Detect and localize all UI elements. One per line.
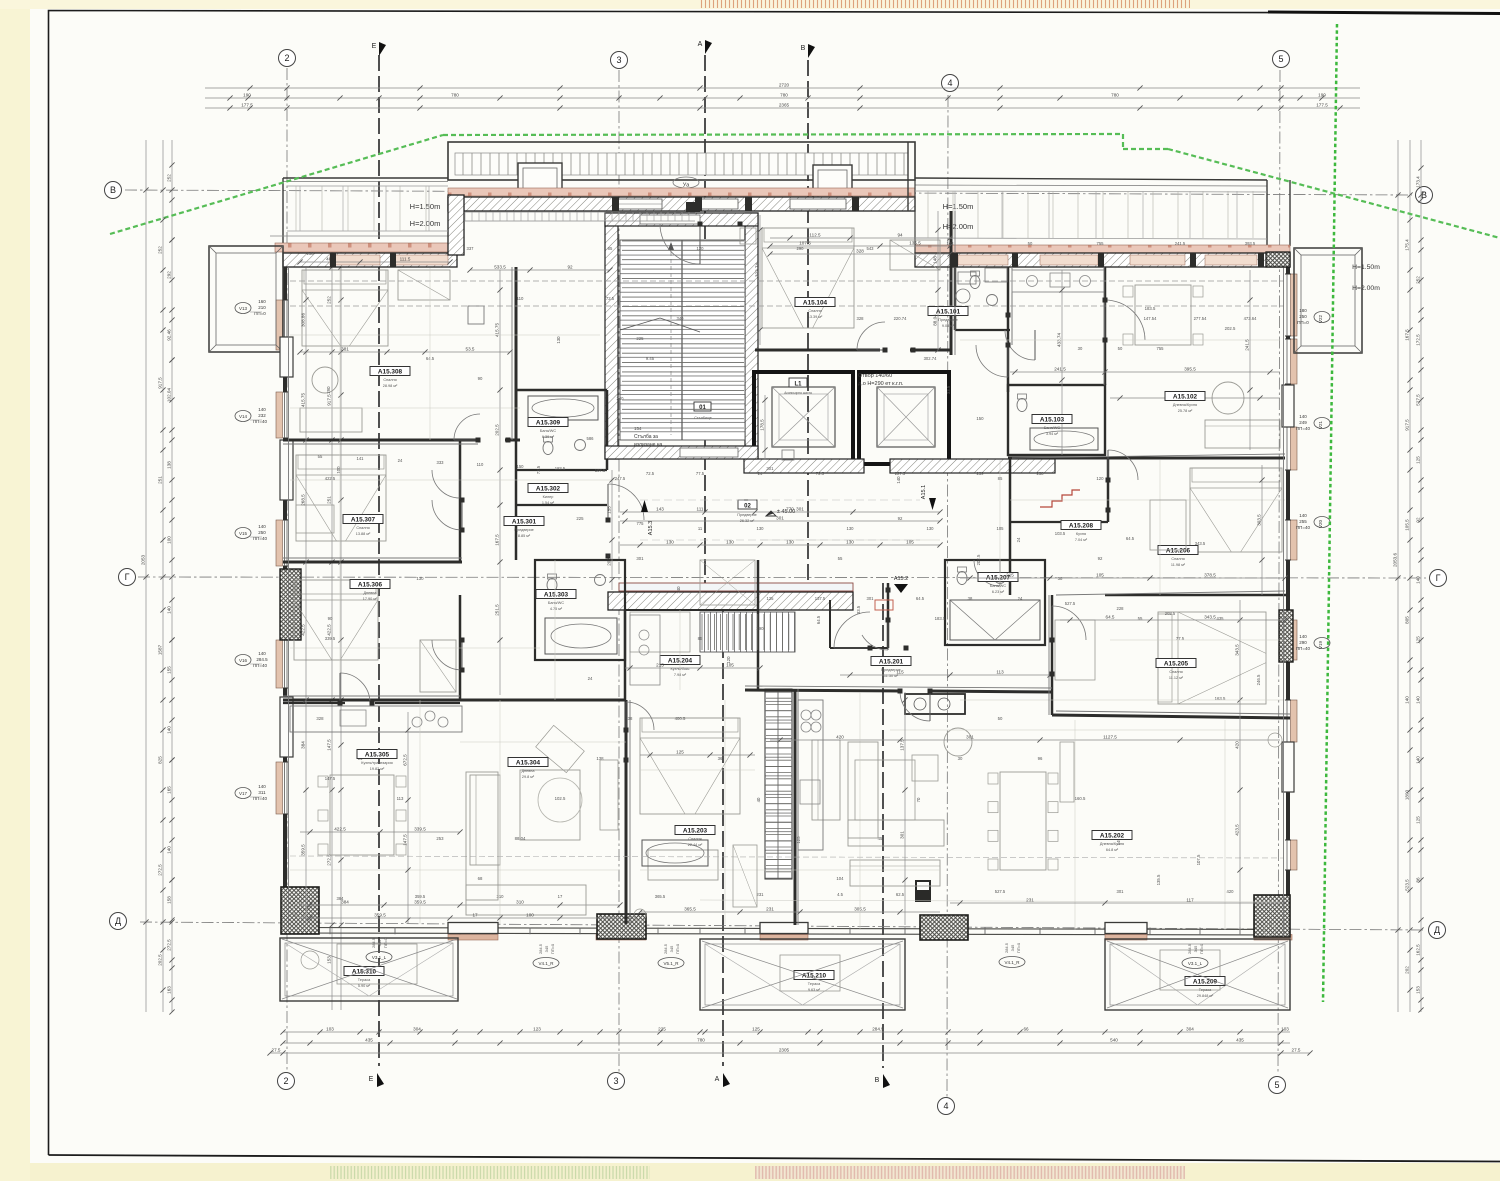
svg-text:241.5: 241.5 — [1244, 339, 1249, 351]
svg-text:H=2.00m: H=2.00m — [410, 219, 441, 228]
svg-text:68: 68 — [478, 876, 483, 881]
kitchen counter A15.102 — [1011, 267, 1013, 345]
svg-text:150: 150 — [976, 416, 984, 421]
svg-text:125: 125 — [1415, 816, 1420, 824]
svg-text:130: 130 — [847, 526, 855, 531]
wardrobe A15.308 — [398, 270, 450, 300]
svg-text:130: 130 — [556, 336, 561, 344]
svg-text:2053: 2053 — [140, 554, 145, 565]
svg-text:780: 780 — [697, 1037, 705, 1042]
room label A15.205 — [1156, 659, 1196, 668]
green boundary step — [1122, 134, 1124, 149]
svg-text:88.04: 88.04 — [932, 314, 937, 326]
level dashes corridor — [640, 499, 920, 501]
svg-text:227.5: 227.5 — [895, 471, 906, 476]
axis bubble G left — [119, 569, 136, 586]
right section band windows — [958, 255, 1008, 265]
tub A15.309 — [528, 396, 598, 420]
svg-text:165: 165 — [166, 786, 171, 794]
svg-text:190: 190 — [243, 92, 251, 97]
hatched wall band right section — [915, 253, 1290, 267]
svg-text:225: 225 — [576, 516, 584, 521]
svg-text:232: 232 — [258, 413, 266, 418]
svg-text:420: 420 — [836, 734, 844, 739]
svg-text:A15.201: A15.201 — [879, 659, 904, 666]
left roof terrace edge lines — [283, 177, 448, 179]
hatched wall band below top block — [448, 197, 915, 211]
wall A15.202 north — [745, 690, 900, 691]
svg-text:A15.2: A15.2 — [894, 576, 908, 582]
left yellow margin strip — [0, 0, 30, 1181]
additional door arcs — [976, 345, 1008, 377]
svg-text:125: 125 — [1415, 636, 1420, 644]
svg-text:B: B — [801, 45, 806, 52]
svg-text:4: 4 — [943, 1101, 948, 1111]
window label V3.1L — [366, 952, 392, 963]
svg-text:284.5: 284.5 — [1187, 943, 1192, 954]
svg-text:V15: V15 — [239, 531, 248, 536]
axis bubble 4 bottom — [938, 1098, 955, 1115]
svg-text:252: 252 — [326, 296, 331, 304]
svg-text:A15.1: A15.1 — [921, 485, 927, 499]
svg-text:7.04 м²: 7.04 м² — [1075, 538, 1088, 542]
down stair long flight — [765, 689, 792, 879]
svg-text:284.5: 284.5 — [371, 937, 376, 948]
svg-text:384: 384 — [300, 741, 305, 749]
room label A15.208 — [1061, 521, 1101, 530]
svg-text:2365: 2365 — [779, 102, 790, 107]
svg-text:147.5: 147.5 — [325, 776, 336, 781]
posts in left hatch band — [330, 253, 336, 267]
svg-text:175.4: 175.4 — [1404, 239, 1409, 251]
svg-text:17: 17 — [472, 912, 478, 917]
svg-text:141: 141 — [357, 456, 365, 461]
svg-text:167.5: 167.5 — [494, 534, 499, 546]
wc sink A15.309 — [543, 442, 553, 455]
svg-text:28.98 м²: 28.98 м² — [383, 384, 398, 388]
svg-text:26.32 м²: 26.32 м² — [740, 519, 755, 523]
svg-text:140: 140 — [258, 651, 266, 656]
svg-text:A15.305: A15.305 — [365, 752, 390, 759]
svg-text:105: 105 — [906, 539, 914, 544]
svg-text:308.86: 308.86 — [300, 313, 305, 327]
svg-text:3: 3 — [616, 55, 621, 65]
dim chain top rooms — [770, 237, 950, 239]
room label A15.206 — [1158, 546, 1198, 555]
room label A15.102 — [1165, 392, 1205, 401]
svg-text:92: 92 — [1098, 556, 1103, 561]
room label A15.309 — [528, 418, 568, 427]
dark posts in top hatch band — [612, 197, 619, 211]
corridor secondary dim chain — [620, 544, 940, 546]
room label A15.305 — [357, 750, 397, 759]
level mark +45.00 — [766, 511, 776, 516]
stair label 01 — [694, 402, 711, 411]
dim chain corridor horizontal — [620, 511, 940, 513]
wall A15.205 south — [1052, 715, 1290, 718]
svg-text:Баня/WC: Баня/WC — [1044, 426, 1060, 430]
svg-text:422.5: 422.5 — [326, 624, 331, 636]
window label V4.1R — [533, 958, 559, 969]
svg-text:Дневна: Дневна — [363, 591, 377, 595]
axis bubble 3 bottom — [608, 1073, 625, 1090]
svg-text:339.5: 339.5 — [325, 636, 336, 641]
svg-text:Дневна: Дневна — [521, 769, 535, 773]
svg-text:9.45: 9.45 — [646, 356, 655, 361]
axis bubble 4 top — [942, 75, 959, 92]
corridor south hatched wall — [608, 592, 853, 610]
svg-text:Отвор 140/60: Отвор 140/60 — [858, 373, 892, 379]
svg-text:Стълба за: Стълба за — [634, 434, 658, 440]
axis flag E top — [379, 42, 386, 56]
tv A15.202 — [1060, 742, 1074, 802]
door jamb stubs — [476, 438, 481, 443]
svg-text:11.30 м²: 11.30 м² — [884, 674, 899, 678]
svg-text:A15.103: A15.103 — [1040, 417, 1065, 424]
sofa L A15.202 — [848, 742, 878, 838]
svg-text:423.5: 423.5 — [1234, 824, 1239, 836]
svg-text:805: 805 — [1404, 616, 1409, 624]
tv cabinet A15.304 — [600, 760, 618, 830]
sofa A15.102 — [1205, 420, 1280, 448]
wall A15.204 east — [757, 560, 760, 690]
svg-text:272.5: 272.5 — [326, 854, 331, 866]
axis B section line upper — [807, 60, 809, 583]
svg-text:Баня/WC: Баня/WC — [990, 584, 1006, 588]
bed A15.206 — [1190, 468, 1282, 552]
svg-text:277.54: 277.54 — [1194, 316, 1207, 321]
svg-text:Баня/WC: Баня/WC — [548, 601, 564, 605]
top roof block outline — [448, 142, 915, 180]
svg-text:178.5: 178.5 — [759, 419, 764, 431]
bed A15.104 — [762, 228, 854, 328]
svg-text:A15.101: A15.101 — [936, 309, 961, 316]
svg-text:322.74: 322.74 — [754, 263, 759, 277]
svg-text:Спалня: Спалня — [356, 526, 369, 530]
svg-text:231: 231 — [766, 906, 774, 911]
svg-text:72.5: 72.5 — [536, 465, 541, 474]
svg-text:117: 117 — [1186, 897, 1194, 902]
axis 5 line — [1278, 70, 1280, 1072]
more ticks top chains — [227, 95, 232, 100]
posts in right hatch band — [952, 253, 958, 267]
svg-text:755: 755 — [1097, 241, 1105, 246]
svg-text:90: 90 — [478, 376, 483, 381]
svg-text:284.5: 284.5 — [1004, 942, 1009, 953]
window label V5.1R — [658, 958, 684, 969]
interior dim chain bottom right — [950, 902, 1285, 904]
elevator car L1 — [772, 387, 835, 447]
dim ticks near A15.104 — [759, 215, 761, 345]
svg-text:137.5: 137.5 — [899, 739, 904, 751]
svg-text:Тераса: Тераса — [358, 978, 371, 982]
svg-text:24: 24 — [588, 676, 593, 681]
crosshatch pier south-center-right — [920, 915, 968, 940]
svg-text:153: 153 — [1415, 986, 1420, 994]
wall top-right bath — [954, 267, 957, 330]
svg-text:Килер: Килер — [543, 495, 554, 499]
cabinet stair hall — [782, 450, 794, 460]
svg-text:251: 251 — [326, 496, 331, 504]
svg-text:140: 140 — [1404, 696, 1409, 704]
svg-text:24: 24 — [758, 471, 763, 476]
door A15.202 entry — [900, 691, 930, 721]
door A15.205 — [1052, 606, 1086, 640]
wall bath A15.207 block — [945, 560, 1045, 645]
small dims above south wall — [300, 917, 620, 919]
section flag A15.3 — [641, 500, 648, 512]
svg-text:125: 125 — [767, 596, 775, 601]
svg-text:92: 92 — [567, 264, 573, 269]
svg-text:V21: V21 — [1318, 421, 1323, 430]
left exterior wall — [283, 267, 287, 925]
svg-text:H=1.50m: H=1.50m — [410, 202, 441, 211]
svg-text:415.75: 415.75 — [300, 393, 305, 407]
svg-text:163: 163 — [947, 241, 955, 246]
svg-text:5: 5 — [1274, 1080, 1279, 1090]
green boundary top horizontal — [443, 134, 1123, 135]
wall A15.104 east — [950, 211, 953, 355]
door A15.307 — [432, 500, 462, 530]
svg-text:27.5: 27.5 — [1292, 1047, 1301, 1052]
room label A15.301 — [504, 517, 544, 526]
svg-text:9.08 м²: 9.08 м² — [942, 324, 955, 328]
svg-text:111.5: 111.5 — [400, 256, 411, 261]
dining table A15.202 — [1000, 772, 1046, 870]
svg-text:92.46: 92.46 — [166, 329, 171, 341]
svg-text:70: 70 — [916, 797, 921, 802]
skylight block right — [813, 165, 852, 208]
svg-text:215: 215 — [1006, 572, 1014, 577]
wall A15.205 west — [1051, 595, 1054, 715]
svg-text:268.5: 268.5 — [300, 494, 305, 506]
window label V3.1L b — [1182, 958, 1208, 969]
svg-text:290: 290 — [797, 246, 805, 251]
double-line inner strokes for main walls — [288, 267, 290, 925]
plants circles — [293, 903, 307, 917]
svg-text:A15.203: A15.203 — [683, 828, 708, 835]
svg-text:V20: V20 — [1318, 520, 1323, 529]
inner left dimension chain — [331, 245, 333, 1010]
wall A15.206 west — [1107, 458, 1110, 522]
axis V horizontal line — [125, 190, 1412, 195]
down stair right wall — [794, 689, 797, 925]
vertical hatch wall connecting left and top block — [448, 195, 464, 255]
svg-text:A15.206: A15.206 — [1166, 548, 1191, 555]
svg-text:301: 301 — [899, 831, 904, 839]
top-right bath fixtures — [970, 276, 980, 289]
svg-text:2720: 2720 — [779, 82, 790, 87]
svg-text:301: 301 — [796, 506, 804, 511]
svg-text:105: 105 — [726, 662, 734, 667]
elevator car 2 — [877, 387, 935, 447]
svg-text:3: 3 — [613, 1076, 618, 1086]
svg-text:272.5: 272.5 — [166, 939, 171, 951]
svg-text:2053.6: 2053.6 — [1392, 553, 1397, 567]
door A15.201 — [834, 612, 870, 648]
svg-text:11.98 м²: 11.98 м² — [1171, 563, 1186, 567]
pink parapet band left section — [275, 243, 455, 252]
corridor wall below elevators — [744, 459, 864, 473]
svg-text:V3.1_L: V3.1_L — [372, 955, 387, 960]
svg-text:2: 2 — [284, 53, 289, 63]
svg-text:92: 92 — [898, 516, 903, 521]
svg-text:6.39 м²: 6.39 м² — [542, 435, 555, 439]
svg-text:140: 140 — [166, 726, 171, 734]
axis bubble G right — [1430, 570, 1447, 587]
svg-text:250: 250 — [1299, 314, 1307, 319]
wall A15.102 south — [1008, 457, 1285, 460]
svg-text:140: 140 — [1299, 414, 1307, 419]
svg-text:02: 02 — [744, 504, 751, 510]
svg-text:147.5: 147.5 — [402, 834, 407, 846]
svg-text:140: 140 — [1299, 513, 1307, 518]
svg-text:V4.1_R: V4.1_R — [538, 961, 554, 966]
slope line H200 top — [290, 305, 1284, 307]
svg-text:105.5: 105.5 — [1404, 519, 1409, 531]
svg-text:780: 780 — [1111, 92, 1119, 97]
svg-text:13.88 м²: 13.88 м² — [356, 532, 371, 536]
wall x1105 vertical — [1104, 267, 1107, 385]
svg-text:249: 249 — [1299, 420, 1307, 425]
svg-text:Баня/WC: Баня/WC — [540, 429, 556, 433]
svg-text:345: 345 — [1010, 944, 1015, 951]
pink parapet band top block — [448, 188, 915, 196]
hall label 02 — [738, 500, 757, 509]
tick row under top hatch band — [465, 211, 695, 213]
svg-text:5.90 м²: 5.90 м² — [358, 984, 371, 988]
svg-text:H=2.00m: H=2.00m — [943, 222, 974, 231]
svg-text:239: 239 — [977, 471, 985, 476]
svg-text:ПП=40: ПП=40 — [1296, 646, 1311, 651]
kitchen appliance box A15.202 north wall — [905, 694, 965, 714]
svg-text:1587: 1587 — [157, 644, 162, 655]
axis B section line lower — [882, 583, 884, 1068]
svg-text:100: 100 — [526, 912, 534, 917]
fridge black boxes — [915, 880, 931, 902]
left wall crosshatch pier — [280, 569, 301, 640]
stair center divider — [681, 240, 683, 440]
svg-text:140: 140 — [1299, 634, 1307, 639]
svg-text:384: 384 — [337, 896, 345, 901]
svg-text:359.5: 359.5 — [300, 844, 305, 856]
axis bubble V left — [105, 182, 122, 199]
wall A15.308 south — [283, 439, 478, 442]
axis flag E bottom — [377, 1073, 384, 1087]
room label A15.304 — [508, 758, 548, 767]
crosshatch pier south-left — [281, 887, 319, 934]
svg-text:345: 345 — [669, 945, 674, 952]
stair core top wall — [605, 213, 758, 226]
svg-text:246.5: 246.5 — [1256, 674, 1261, 685]
svg-text:24: 24 — [1016, 537, 1021, 542]
dim chain A15.102 — [1110, 397, 1280, 399]
bottom pink tick texture — [755, 1166, 1185, 1179]
svg-text:50: 50 — [998, 716, 1003, 721]
svg-text:400.5: 400.5 — [675, 716, 686, 721]
svg-text:250: 250 — [258, 530, 266, 535]
wall bath A15.309 block — [516, 389, 607, 392]
svg-text:11.12 м²: 11.12 м² — [1169, 676, 1184, 680]
svg-text:Кухня: Кухня — [1076, 532, 1086, 536]
svg-text:4: 4 — [947, 78, 952, 88]
svg-text:284.5: 284.5 — [872, 1026, 884, 1031]
right roof terrace edge lines — [915, 178, 1267, 180]
wall A15.104 south — [755, 349, 880, 352]
south exterior wall glazing — [283, 928, 1290, 930]
svg-text:ПП=0: ПП=0 — [1199, 943, 1204, 954]
bed A15.205 — [1158, 612, 1266, 704]
svg-text:202.5: 202.5 — [494, 424, 499, 436]
svg-text:66: 66 — [1023, 1026, 1029, 1031]
room label A15.307 — [343, 515, 383, 524]
svg-text:228: 228 — [1117, 606, 1125, 611]
svg-text:130: 130 — [927, 526, 935, 531]
svg-text:7.98 м²: 7.98 м² — [674, 673, 687, 677]
svg-text:140: 140 — [676, 586, 681, 594]
svg-text:238: 238 — [1037, 471, 1045, 476]
svg-text:343.5: 343.5 — [1204, 614, 1216, 619]
axis 4 line — [947, 95, 948, 1098]
svg-text:130: 130 — [757, 526, 765, 531]
svg-text:1127.5: 1127.5 — [1103, 734, 1117, 739]
wardrobe A15.306 — [420, 640, 456, 692]
svg-text:917.5: 917.5 — [157, 377, 162, 389]
wall bath A15.103 block — [1008, 385, 1105, 455]
washer A15.308 niche — [468, 306, 484, 324]
svg-text:107.5: 107.5 — [799, 240, 811, 245]
wall kitchen A15.102 west — [1007, 267, 1010, 392]
extra pane dividers right roof band — [927, 191, 929, 238]
stair core right wall — [745, 213, 758, 459]
left wall window openings — [283, 300, 288, 350]
left bay window V13 — [209, 246, 283, 352]
bottom yellow margin strip — [30, 1163, 1500, 1181]
svg-text:130: 130 — [726, 539, 734, 544]
dim chain A15.202 interior — [770, 739, 1280, 741]
left section band windows — [330, 255, 380, 265]
svg-text:50: 50 — [1118, 346, 1123, 351]
svg-text:290: 290 — [326, 386, 331, 394]
svg-text:167.5: 167.5 — [1404, 329, 1409, 341]
svg-text:115: 115 — [896, 669, 904, 674]
svg-text:85: 85 — [998, 476, 1003, 481]
table A15.102 — [1135, 285, 1191, 345]
round rug A15.304 — [538, 778, 582, 822]
svg-text:328: 328 — [857, 316, 865, 321]
red pipe mark near A15.103 — [1040, 490, 1080, 507]
svg-text:ПП=0: ПП=0 — [1016, 942, 1021, 953]
shower A15.303 — [545, 618, 617, 654]
green boundary diagonal right — [1168, 149, 1500, 238]
svg-text:343.5: 343.5 — [1195, 541, 1206, 546]
table A15.304 — [520, 770, 580, 840]
svg-text:A15.209: A15.209 — [1193, 979, 1218, 986]
svg-text:Спалня: Спалня — [383, 378, 396, 382]
hatched wall band left section — [283, 253, 457, 267]
top yellow margin strip — [0, 0, 1500, 9]
svg-text:150: 150 — [517, 464, 525, 469]
svg-text:435: 435 — [365, 1037, 373, 1042]
svg-text:110: 110 — [477, 462, 484, 467]
corridor lower stair flight — [700, 612, 795, 652]
svg-text:231: 231 — [1026, 897, 1034, 902]
south wall door blocks — [448, 923, 498, 934]
svg-text:301: 301 — [776, 515, 784, 520]
wardrobe A15.104 — [890, 240, 940, 270]
corner sofa A15.304 — [466, 772, 498, 900]
svg-text:64.5: 64.5 — [1106, 614, 1115, 619]
